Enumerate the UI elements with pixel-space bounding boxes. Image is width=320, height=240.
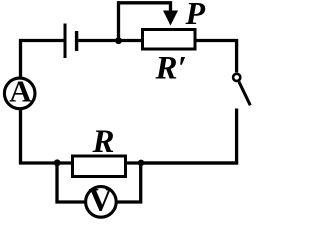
node B junction dot	[54, 159, 61, 166]
svg-text:V: V	[89, 183, 113, 219]
wire switch lower: below switch down to bottom-right corner	[141, 109, 237, 164]
voltmeter V: circle	[86, 187, 117, 218]
wire node A riser and top jumper to wiper arrow	[119, 3, 171, 41]
wire voltmeter branch left: node B down to voltmeter	[57, 163, 85, 202]
svg-text:R′: R′	[155, 50, 187, 86]
node A junction dot	[115, 37, 122, 44]
wire bottom: node B through resistor R region to bottom-right corner	[57, 161, 238, 164]
switch S: open blade	[239, 82, 250, 106]
wire battery to node A	[78, 39, 141, 42]
resistor R box	[73, 156, 126, 177]
svg-text:R: R	[92, 124, 115, 160]
battery cell: long plate (positive)	[64, 24, 67, 59]
switch S: pivot circle	[233, 74, 240, 81]
wire voltmeter branch right: voltmeter to node C	[118, 163, 141, 202]
ammeter A: circle	[4, 78, 35, 109]
wire top-left: battery to left corner and down to ammeter	[21, 41, 64, 77]
wire right: rheostat output to top-right corner down to switch	[197, 41, 237, 73]
node C junction dot	[138, 160, 144, 166]
rheostat R' box	[143, 30, 196, 50]
battery cell: short plate (negative)	[75, 31, 78, 51]
wiper arrow P onto rheostat	[163, 11, 178, 26]
svg-text:P: P	[185, 0, 206, 31]
svg-text:A: A	[9, 74, 32, 109]
wire left lower: ammeter bottom to bottom-left corner to node B	[21, 110, 58, 163]
